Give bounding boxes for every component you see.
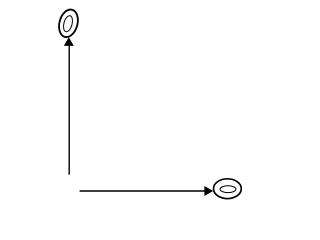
arrowhead right (204, 186, 213, 196)
wire (horizontal arrow shaft) (80, 190, 205, 192)
node B (bottom-right donut) (214, 179, 242, 199)
wire (vertical arrow shaft) (68, 46, 70, 175)
arrowhead up (64, 37, 74, 46)
node A (top donut, tilted) (56, 7, 81, 39)
